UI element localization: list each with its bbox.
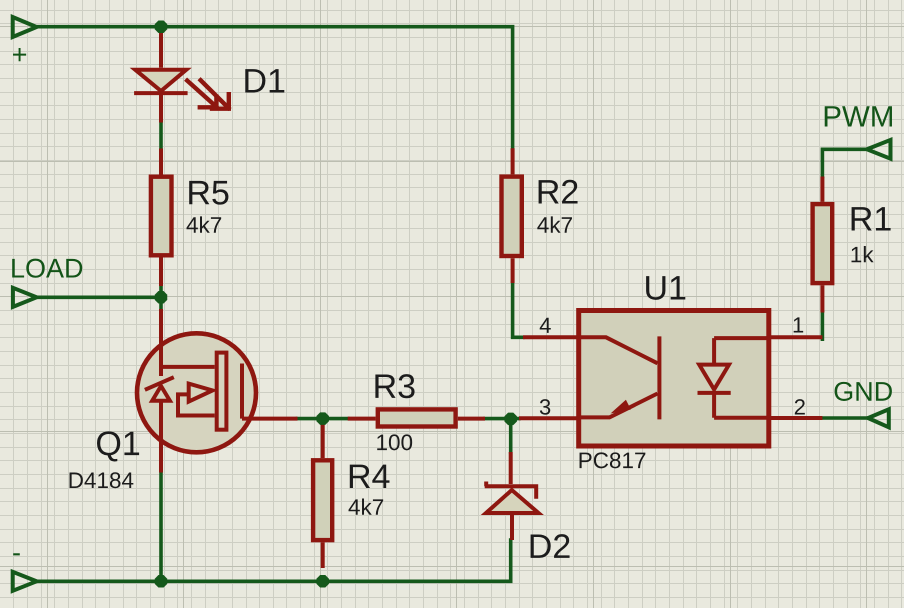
label - terminal name — [13, 553, 20, 555]
drain pin from LOAD junction into circle — [159, 309, 163, 376]
junction node dots — [155, 20, 517, 587]
node bottom rail / Q1 source junction — [155, 575, 168, 588]
terminal LOAD — [13, 288, 37, 307]
wire U1 pin1 to R1 bend — [821, 313, 825, 340]
wire R5 to LOAD junction — [159, 286, 163, 309]
wire U1 pin2 to GND terminal — [769, 416, 866, 420]
resistor R2 — [502, 148, 522, 283]
pin number 3 — [540, 399, 550, 415]
wire stub below top-rail junction to D1 — [159, 27, 163, 32]
gate branch — [161, 365, 215, 369]
wire LOAD terminal to junction — [39, 295, 162, 299]
label Q1 reference — [97, 431, 139, 461]
label R3 reference — [375, 374, 414, 398]
label GND terminal name — [835, 382, 892, 401]
terminal - (bottom left) — [13, 572, 37, 591]
node gate row / D2 junction — [504, 413, 517, 426]
wire top rail from + terminal to R2 column — [39, 27, 513, 149]
internal zener anode triangle — [152, 386, 170, 401]
phototransistor bar — [657, 336, 661, 419]
terminal + (top left) — [13, 17, 37, 37]
value 4k7 (R2) — [537, 216, 572, 232]
value D4184 (Q1) — [70, 472, 134, 488]
label + terminal name — [13, 48, 26, 61]
value 1k (R1) — [852, 246, 874, 262]
label R2 reference — [539, 180, 578, 204]
buffer triangle — [189, 384, 213, 402]
gate out to R3 — [242, 417, 298, 421]
node LOAD junction — [155, 291, 168, 304]
node bottom rail / R4 junction — [316, 575, 329, 588]
pin 2 lead — [769, 416, 823, 420]
MOSFET Q1 — [137, 309, 298, 473]
channel bar — [240, 364, 244, 419]
node top rail / D1 junction — [155, 20, 168, 33]
zener diode D2 — [485, 452, 539, 540]
step wire under buffer — [178, 394, 215, 415]
label D2 reference — [531, 534, 570, 558]
pin number 2 — [795, 399, 805, 414]
circle body — [137, 333, 256, 452]
node gate row / R4 junction — [316, 412, 329, 425]
resistor R1 — [813, 177, 833, 313]
anode triangle pointing up — [486, 490, 539, 513]
wire D2 top to gate row junction — [509, 419, 513, 452]
value 4k7 (R4) — [349, 499, 384, 515]
wire R3 right to D2 junction — [485, 417, 519, 421]
cathode bar with ticks — [485, 482, 539, 499]
wire D1 cathode to R5 — [159, 123, 163, 149]
resistor R3 (horizontal) — [348, 409, 485, 426]
gate plate — [217, 353, 227, 430]
value PC817 (U1) — [580, 452, 646, 468]
label PWM terminal name — [825, 106, 892, 126]
pin 1 lead — [769, 335, 823, 339]
wire R2 bottom to U1 pin 4 bend — [513, 283, 523, 338]
value 4k7 (R5) — [187, 216, 222, 232]
internal zener cathode (tilted) — [145, 377, 174, 390]
LED D1 — [134, 32, 188, 123]
wire bottom rail — [39, 540, 511, 581]
terminal GND (right) — [868, 409, 889, 427]
label D1 reference — [245, 69, 284, 92]
label U1 reference — [646, 276, 685, 300]
resistor R4 — [313, 419, 332, 568]
label R1 reference — [852, 207, 891, 230]
source line below zener — [159, 401, 163, 473]
emitter arrow — [611, 400, 631, 414]
terminal PWM (top right) — [867, 140, 891, 159]
wire Q1 source to bottom rail — [159, 473, 163, 582]
value 100 (R3) — [377, 434, 412, 450]
wire Q1 gate to R3 — [298, 417, 348, 421]
D1 light arrows — [187, 80, 229, 109]
phototransistor emitter — [579, 394, 658, 418]
label R4 reference — [350, 465, 390, 488]
resistor R5 — [151, 149, 172, 287]
optocoupler U1 — [519, 311, 822, 447]
pin number 1 — [794, 317, 803, 332]
label R5 reference — [189, 181, 228, 205]
pin 3 lead — [519, 416, 579, 420]
pin number 4 — [540, 318, 551, 333]
phototransistor collector — [579, 337, 658, 363]
pin 4 lead — [523, 335, 579, 339]
internal LED — [698, 338, 769, 418]
label LOAD terminal name — [12, 259, 82, 278]
wire PWM terminal to R1 bend — [822, 149, 864, 176]
